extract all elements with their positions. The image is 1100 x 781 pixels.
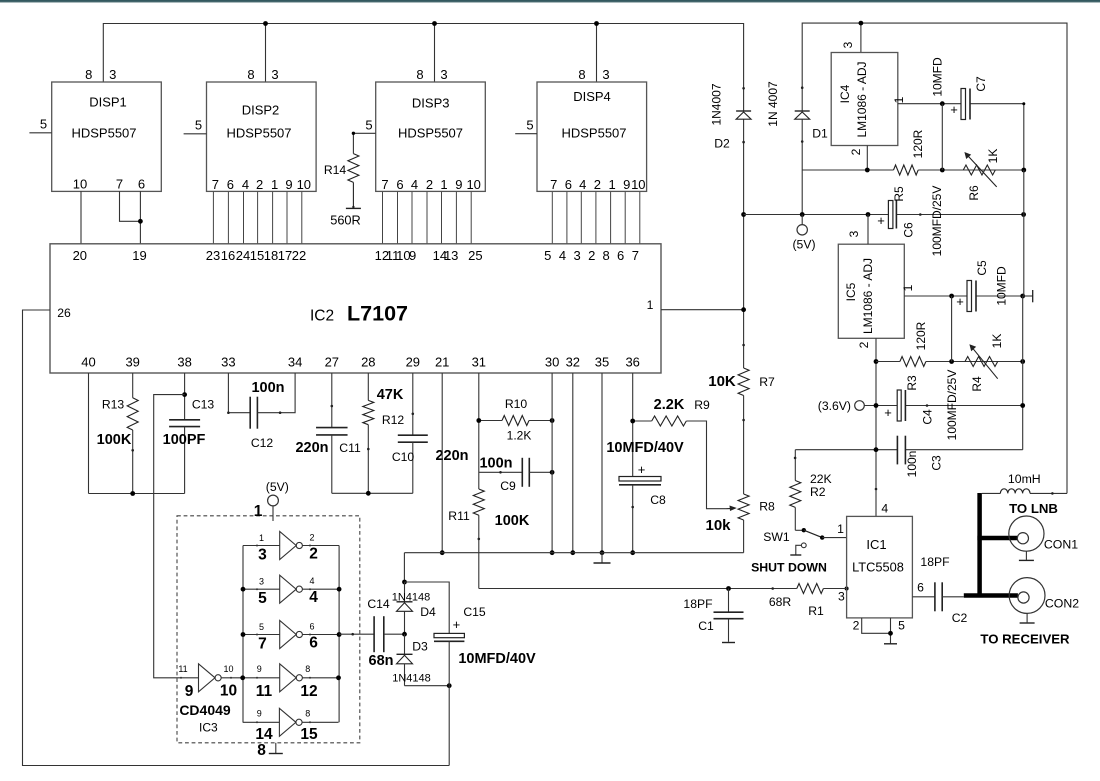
- svg-text:HDSP5507: HDSP5507: [226, 126, 291, 141]
- wires DISP4 segment pins to IC2: [552, 192, 640, 244]
- wire IC2 pin36 column: [632, 373, 634, 477]
- svg-text:C15: C15: [463, 605, 486, 619]
- svg-text:27: 27: [325, 354, 339, 369]
- svg-text:C1: C1: [698, 619, 714, 633]
- svg-text:DISP2: DISP2: [242, 103, 280, 118]
- wire C15 to bottom rail: [448, 686, 450, 766]
- resistor R6 1K preset: [963, 149, 1000, 201]
- resistor R11 100K: [448, 489, 530, 589]
- wire IC2 pin32 to ground bus: [572, 373, 574, 553]
- svg-text:+: +: [638, 462, 646, 477]
- junction IC1 pin3 entry: [845, 587, 849, 591]
- svg-text:R14: R14: [324, 163, 347, 177]
- svg-text:6: 6: [617, 248, 624, 263]
- wire IC1 pin6 row: [912, 596, 935, 598]
- svg-text:30: 30: [545, 354, 559, 369]
- svg-text:10: 10: [297, 177, 311, 192]
- svg-text:CON1: CON1: [1044, 538, 1078, 552]
- junction C14-D4-D3 node: [402, 632, 407, 637]
- wire inverter out to C14: [339, 633, 374, 635]
- svg-text:IC1: IC1: [866, 537, 886, 552]
- junction 5V-D1: [800, 212, 805, 217]
- junction rail DISP3: [432, 21, 437, 26]
- connector CON2 TO RECEIVER: [980, 578, 1079, 647]
- svg-text:2: 2: [309, 546, 318, 563]
- regulator IC4 LM1086-ADJ: [831, 53, 898, 146]
- svg-text:5: 5: [259, 622, 264, 632]
- svg-text:C7: C7: [974, 76, 988, 92]
- svg-text:9: 9: [623, 177, 630, 192]
- svg-text:2: 2: [309, 533, 314, 543]
- svg-text:20: 20: [73, 248, 87, 263]
- svg-text:R8: R8: [759, 500, 775, 514]
- svg-text:1: 1: [254, 503, 263, 520]
- svg-text:9: 9: [185, 683, 194, 700]
- wire IC1 pins 2,5 ground: [862, 618, 891, 644]
- svg-text:26: 26: [57, 306, 71, 320]
- svg-text:33: 33: [221, 354, 235, 369]
- svg-text:18: 18: [264, 248, 278, 263]
- junction pin21 ground bus: [440, 550, 445, 555]
- junction column pin1 row: [741, 307, 746, 312]
- capacitor C6 100MFD/25V: [877, 186, 944, 257]
- svg-text:7: 7: [550, 177, 557, 192]
- svg-text:31: 31: [472, 354, 486, 369]
- wire DISP2 pin3 drop: [265, 24, 267, 83]
- wire C11-C10 bottom link: [332, 492, 413, 494]
- resistor R7 10K: [708, 368, 775, 396]
- svg-text:6: 6: [309, 635, 318, 652]
- resistor R3 120R: [900, 321, 928, 390]
- svg-text:8: 8: [602, 248, 609, 263]
- svg-text:7: 7: [116, 177, 123, 192]
- wire R7 to R8: [743, 396, 745, 495]
- svg-text:IC5: IC5: [844, 282, 858, 301]
- svg-text:1: 1: [608, 177, 615, 192]
- svg-text:10k: 10k: [705, 517, 731, 534]
- junction pin30 ground bus: [550, 550, 555, 555]
- svg-text:4: 4: [411, 177, 418, 192]
- wire SW1 to IC1 pin1: [822, 537, 846, 539]
- svg-text:8: 8: [416, 67, 423, 82]
- svg-text:3: 3: [259, 577, 264, 587]
- wire ground bus elbow to D4: [403, 553, 405, 582]
- junction pin35 ground bus: [600, 550, 605, 555]
- svg-text:3: 3: [838, 590, 845, 604]
- svg-text:10MFD/40V: 10MFD/40V: [458, 651, 536, 667]
- svg-text:47K: 47K: [377, 387, 404, 403]
- capacitor C3 100n: [897, 436, 943, 478]
- svg-text:9: 9: [257, 664, 262, 674]
- capacitor C9 100n: [479, 456, 552, 494]
- svg-text:100K: 100K: [495, 513, 530, 529]
- lead dots: [131, 86, 1053, 723]
- svg-text:R1: R1: [808, 604, 824, 618]
- wire C15 branch: [405, 582, 450, 633]
- junction C3-pin4 column: [874, 447, 879, 452]
- junction IC5 out node: [949, 294, 954, 299]
- svg-text:6: 6: [309, 622, 314, 632]
- svg-text:10: 10: [73, 177, 87, 192]
- svg-text:34: 34: [288, 354, 302, 369]
- svg-text:+: +: [453, 617, 461, 632]
- svg-text:4: 4: [881, 502, 888, 516]
- svg-text:100n: 100n: [479, 456, 512, 472]
- svg-text:1: 1: [440, 177, 447, 192]
- junction 5V-right bus: [1021, 212, 1026, 217]
- svg-text:15: 15: [250, 248, 264, 263]
- junction output bus row2: [337, 587, 342, 592]
- junction R13 bottom: [130, 491, 135, 496]
- svg-text:19: 19: [132, 248, 146, 263]
- junction input bus row3: [241, 632, 246, 637]
- svg-text:23: 23: [206, 248, 220, 263]
- svg-text:6: 6: [565, 177, 572, 192]
- svg-text:R13: R13: [102, 398, 125, 412]
- svg-text:220n: 220n: [435, 448, 468, 464]
- junction R12 bottom: [366, 491, 371, 496]
- svg-text:DISP1: DISP1: [89, 95, 127, 110]
- svg-text:7: 7: [381, 177, 388, 192]
- svg-text:1: 1: [271, 177, 278, 192]
- svg-text:8: 8: [305, 664, 310, 674]
- svg-text:R5: R5: [892, 186, 906, 202]
- svg-text:100MFD/25V: 100MFD/25V: [930, 186, 944, 257]
- svg-text:+: +: [884, 405, 892, 420]
- wire DISP2 pin5 stub: [184, 133, 207, 135]
- svg-text:5: 5: [365, 118, 372, 133]
- wire DISP1 pin6 to IC2 pin19: [139, 191, 141, 244]
- op-amp IC2 L7107 main chip: [50, 244, 661, 373]
- ground stub R14: [346, 207, 361, 209]
- capacitor C12 100n: [228, 373, 295, 450]
- wire thick branch CON1: [977, 536, 1017, 541]
- junction D4 top node: [402, 580, 407, 585]
- svg-text:R6: R6: [967, 185, 981, 201]
- capacitor C11 220n: [295, 373, 360, 493]
- resistor R14 560R: [324, 133, 361, 227]
- svg-text:220n: 220n: [295, 440, 328, 456]
- svg-text:18PF: 18PF: [920, 555, 949, 569]
- diode D4 1N4148: [392, 582, 436, 634]
- svg-text:10mH: 10mH: [1008, 472, 1041, 486]
- svg-text:36: 36: [625, 354, 639, 369]
- wires DISP2 segment pins to IC2: [213, 192, 301, 244]
- pin labels DISP2 bottom: [212, 177, 311, 192]
- junction C1 node: [726, 586, 731, 591]
- svg-text:R2: R2: [810, 485, 826, 499]
- capacitor C13 100PF: [163, 373, 215, 494]
- svg-text:35: 35: [595, 354, 609, 369]
- svg-text:C10: C10: [392, 450, 415, 464]
- junction C4 right: [1020, 403, 1025, 408]
- inverter IC3 row 5->4: [243, 575, 339, 607]
- terminal (5V): [792, 215, 815, 252]
- junction pin32 ground bus: [570, 550, 575, 555]
- svg-text:1N4148: 1N4148: [392, 673, 431, 685]
- junction R10 right: [550, 418, 555, 423]
- pin labels DISP1 10 7 6: [73, 177, 145, 192]
- pin labels DISP4 bottom: [550, 177, 645, 192]
- svg-text:3: 3: [258, 547, 267, 564]
- wire IC4 pin3 lead: [860, 23, 862, 52]
- svg-text:5: 5: [526, 118, 533, 133]
- junction C13 top tap: [182, 392, 187, 397]
- capacitor C8 10MFD/40V: [606, 440, 684, 507]
- junction 3.6V-pin2 column: [874, 403, 879, 408]
- wire DISP1 pin5 stub: [29, 132, 51, 134]
- svg-text:4: 4: [309, 576, 314, 586]
- svg-text:2: 2: [853, 619, 860, 633]
- wire pin38 tap to inverter input: [154, 395, 199, 678]
- svg-text:38: 38: [177, 354, 191, 369]
- resistor R4 1K preset: [965, 334, 1004, 392]
- svg-text:4: 4: [242, 177, 249, 192]
- svg-text:22K: 22K: [810, 472, 832, 486]
- svg-text:100PF: 100PF: [163, 432, 206, 448]
- svg-text:C2: C2: [952, 611, 968, 625]
- wire IC5 pin3 lead: [867, 215, 869, 245]
- svg-text:CD4049: CD4049: [179, 702, 231, 718]
- wire IC2 pin40 column: [88, 373, 90, 494]
- svg-text:1K: 1K: [986, 149, 1000, 164]
- wire R8 to ground bus: [743, 520, 745, 553]
- connector CON1 TO LNB: [1009, 501, 1078, 561]
- wire IC5 pin1 row: [904, 295, 1022, 297]
- svg-text:29: 29: [406, 354, 420, 369]
- diode D3 1N4148: [392, 634, 431, 686]
- svg-text:HDSP5507: HDSP5507: [561, 126, 626, 141]
- inverter IC3 row 11->12: [243, 664, 339, 700]
- svg-text:5: 5: [898, 619, 905, 633]
- svg-text:D3: D3: [412, 640, 428, 654]
- pin labels DISP3 bottom: [381, 177, 481, 192]
- svg-text:9: 9: [409, 248, 416, 263]
- svg-text:D4: D4: [420, 605, 436, 619]
- svg-text:2: 2: [588, 248, 595, 263]
- svg-text:+: +: [950, 102, 958, 117]
- svg-text:32: 32: [566, 354, 580, 369]
- junction IC4 pin2: [865, 168, 870, 173]
- svg-text:C11: C11: [339, 441, 361, 455]
- svg-text:(3.6V): (3.6V): [818, 399, 851, 413]
- wire thick branch CON2: [964, 593, 1018, 598]
- capacitor C14 68n: [367, 597, 404, 669]
- wire DISP4 pin3 drop: [596, 24, 598, 83]
- svg-text:7: 7: [212, 177, 219, 192]
- junction adj-D1 column: [801, 169, 803, 171]
- junction C5 right: [1020, 294, 1025, 299]
- resistor R2 22K: [790, 450, 832, 531]
- wire 5V supply row: [744, 214, 1024, 216]
- svg-text:(5V): (5V): [266, 480, 289, 494]
- svg-text:HDSP5507: HDSP5507: [71, 126, 136, 141]
- wire DISP1 pin10 to IC2 pin20: [80, 191, 82, 244]
- junction C8 ground bus: [630, 550, 635, 555]
- svg-text:+: +: [877, 213, 885, 228]
- svg-text:15: 15: [300, 726, 318, 743]
- svg-text:1: 1: [647, 298, 654, 312]
- switch SW1 shut down: [751, 528, 827, 575]
- svg-text:8: 8: [257, 742, 266, 759]
- svg-text:3: 3: [602, 67, 609, 82]
- svg-text:25: 25: [468, 248, 482, 263]
- wire pin31 node to R1 row: [479, 588, 729, 590]
- pin labels IC2 bottom row: [81, 354, 640, 369]
- svg-text:5: 5: [544, 248, 551, 263]
- junction output bus row3: [337, 632, 342, 637]
- svg-text:2: 2: [849, 148, 863, 155]
- svg-text:TO RECEIVER: TO RECEIVER: [980, 632, 1070, 647]
- svg-text:1: 1: [901, 284, 915, 291]
- svg-text:R9: R9: [694, 398, 710, 412]
- wire DISP4 pin5 stub: [515, 133, 537, 135]
- wire pin1 tick inside IC3 box: [272, 516, 274, 521]
- wire RF thick bus: [977, 493, 982, 596]
- inverter IC3 row 3->2: [243, 532, 339, 564]
- svg-text:1K: 1K: [990, 334, 1004, 349]
- junction buffer out node: [240, 675, 245, 680]
- svg-text:2: 2: [857, 341, 871, 348]
- svg-text:10K: 10K: [708, 373, 736, 390]
- svg-text:1N4007: 1N4007: [710, 83, 724, 125]
- wire C1 row: [729, 588, 797, 590]
- svg-text:R3: R3: [905, 375, 919, 391]
- svg-text:C6: C6: [902, 222, 916, 238]
- resistor R13 100K: [97, 373, 139, 494]
- display DISP1 HDSP5507: [52, 67, 162, 191]
- svg-text:C13: C13: [192, 398, 215, 412]
- resistor R12 47K: [363, 373, 405, 493]
- wire IC5 adj row: [876, 361, 1023, 363]
- svg-text:1N 4007: 1N 4007: [766, 81, 780, 127]
- svg-text:6: 6: [917, 581, 924, 595]
- IC3 CD4049 dashed outline: [177, 516, 360, 743]
- wire C8 bottom to ground bus: [632, 485, 634, 553]
- svg-text:TO LNB: TO LNB: [1009, 501, 1058, 516]
- svg-text:SW1: SW1: [763, 530, 790, 544]
- svg-text:40: 40: [81, 354, 95, 369]
- regulator IC5 LM1086-ADJ: [838, 244, 904, 338]
- capacitor C7 10MFD: [931, 57, 989, 120]
- svg-text:C8: C8: [650, 493, 666, 507]
- test stub C5 node: [1023, 295, 1033, 297]
- capacitor C15 10MFD/40V: [434, 605, 536, 686]
- junction pin2-R3 row: [874, 359, 879, 364]
- resistor R5 120R: [892, 129, 925, 201]
- junction input bus row2: [241, 587, 246, 592]
- svg-text:14: 14: [255, 726, 273, 743]
- svg-text:3: 3: [109, 67, 116, 82]
- svg-text:9: 9: [455, 177, 462, 192]
- svg-text:SHUT DOWN: SHUT DOWN: [751, 561, 827, 575]
- wire IC2 pin35 to ground bus: [601, 373, 603, 553]
- svg-text:1: 1: [837, 522, 844, 536]
- diode D2 1N4007: [710, 83, 752, 150]
- svg-text:D2: D2: [714, 137, 730, 151]
- svg-text:C4: C4: [920, 409, 934, 425]
- svg-text:1.2K: 1.2K: [507, 429, 532, 443]
- wires DISP3 segment pins to IC2: [383, 192, 472, 244]
- wire DISP3 pin3 drop: [434, 24, 436, 83]
- right distribution bus: [1023, 170, 1024, 450]
- svg-text:68n: 68n: [369, 653, 394, 669]
- svg-text:R7: R7: [759, 375, 775, 389]
- svg-text:C12: C12: [251, 436, 274, 450]
- svg-text:10: 10: [631, 177, 645, 192]
- svg-text:IC4: IC4: [838, 84, 852, 103]
- resistor R8 10k rheostat: [705, 494, 775, 534]
- svg-text:68R: 68R: [769, 595, 792, 609]
- inverter IC3 row 14->15: [243, 708, 339, 743]
- svg-text:11: 11: [178, 664, 187, 674]
- junction R14 top: [352, 132, 355, 135]
- display DISP2 HDSP5507: [207, 67, 317, 191]
- svg-text:(5V): (5V): [792, 238, 815, 252]
- junction IC4 out node: [940, 101, 945, 106]
- wire IC2 pin21 to ground bus: [441, 373, 443, 553]
- wire DISP1 pin7 jog: [120, 191, 141, 221]
- svg-text:L7107: L7107: [347, 302, 408, 326]
- wiper arrow into R8: [727, 507, 734, 509]
- junction column 5V row: [741, 212, 746, 217]
- wire 3.6V row: [864, 405, 1022, 407]
- svg-text:2.2K: 2.2K: [654, 397, 685, 413]
- wire pin1 to adj node: [941, 104, 943, 170]
- svg-text:+: +: [956, 294, 964, 309]
- svg-text:8: 8: [85, 67, 92, 82]
- svg-text:100MFD/25V: 100MFD/25V: [945, 370, 959, 441]
- wire inverter output bus: [338, 546, 340, 723]
- svg-text:IC3: IC3: [199, 721, 218, 735]
- svg-text:10MFD/40V: 10MFD/40V: [606, 440, 684, 456]
- svg-text:100n: 100n: [251, 380, 284, 396]
- svg-text:C9: C9: [500, 479, 516, 493]
- svg-text:7: 7: [632, 248, 639, 263]
- svg-text:CON2: CON2: [1045, 597, 1079, 611]
- svg-text:C5: C5: [975, 260, 989, 276]
- svg-text:D1: D1: [812, 127, 828, 141]
- svg-text:100K: 100K: [97, 432, 132, 448]
- wire DISP3 pin5 stub (from R14): [353, 132, 375, 134]
- resistor R10 1.2K: [479, 397, 552, 443]
- svg-text:10: 10: [223, 664, 233, 674]
- wire pin40-pin38 bottom link: [89, 493, 185, 495]
- svg-text:24: 24: [236, 248, 250, 263]
- svg-text:R4: R4: [970, 376, 984, 392]
- resistor R1 68R: [769, 584, 847, 619]
- ground symbol IC1: [884, 643, 897, 645]
- inverter IC3 row 7->6: [243, 621, 339, 653]
- wire IC4 adj row: [802, 169, 1024, 171]
- wire IC5 pin2 column: [875, 338, 877, 516]
- wire regulator input rail: [802, 23, 1067, 493]
- svg-text:9: 9: [257, 709, 262, 719]
- op-amp IC1 LTC5508: [847, 516, 913, 618]
- svg-text:5: 5: [195, 118, 202, 133]
- wire pin1 to adj node: [951, 296, 953, 362]
- svg-text:HDSP5507: HDSP5507: [398, 126, 463, 141]
- svg-text:120R: 120R: [911, 129, 925, 158]
- svg-text:LTC5508: LTC5508: [852, 560, 904, 575]
- wire IC4 pin1 row: [898, 104, 1024, 170]
- display DISP3 HDSP5507: [376, 67, 486, 191]
- svg-text:2: 2: [426, 177, 433, 192]
- svg-text:3: 3: [847, 230, 861, 237]
- svg-text:11: 11: [256, 683, 273, 700]
- junction output bus row4: [336, 675, 341, 680]
- resistor R9 2.2K: [633, 397, 727, 509]
